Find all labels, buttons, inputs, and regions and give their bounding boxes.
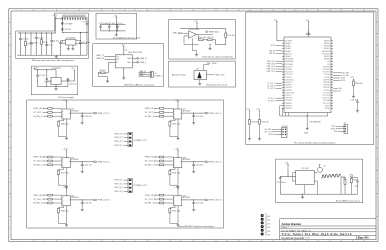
svg-text:R27 10k: R27 10k <box>61 172 68 174</box>
svg-text:11: 11 <box>249 240 251 242</box>
svg-text:ST_OUT_1: ST_OUT_1 <box>267 83 275 85</box>
svg-text:AD22100 Temp: AD22100 Temp <box>172 74 187 77</box>
block 2 cap ground symbol <box>81 170 84 173</box>
svg-text:R9 4k7: R9 4k7 <box>100 70 107 72</box>
R30 wires <box>353 81 355 96</box>
svg-text:PIC18F4580: PIC18F4580 <box>310 121 322 123</box>
svg-text:RB0/INT0: RB0/INT0 <box>324 59 331 61</box>
block 5 input wire row 2 <box>154 160 173 162</box>
block 2 pull-down wire <box>58 168 66 186</box>
power out connector P3 labels <box>114 180 123 193</box>
svg-text:14: 14 <box>317 10 319 12</box>
serial connector J3 body <box>344 125 348 134</box>
J3 wire labels <box>331 126 339 133</box>
block 4 series resistor row 3 <box>159 115 163 117</box>
svg-text:BTS426: BTS426 <box>71 110 79 112</box>
LED D2 <box>261 218 264 221</box>
block 4 vcc wire <box>177 103 179 109</box>
svg-text:CAN_H: CAN_H <box>140 57 147 60</box>
CANH output wire <box>132 57 137 59</box>
ISP connector J4 body <box>282 128 288 138</box>
TMP_OUT wire box E <box>206 74 214 76</box>
R9 ground wire <box>98 73 107 80</box>
ground bus stub down <box>302 194 304 196</box>
svg-text:10: 10 <box>226 10 228 12</box>
power out connector P2 body <box>128 132 132 146</box>
junction dots on buses <box>109 24 119 31</box>
svg-text:D3: D3 <box>265 222 267 224</box>
svg-text:D6: D6 <box>265 233 267 235</box>
svg-text:C44 10n: C44 10n <box>196 165 204 167</box>
block 3 input wire row 3 <box>43 202 62 204</box>
box G outline <box>31 66 77 95</box>
svg-text:J: J <box>376 228 377 230</box>
block 5 output wire <box>182 161 206 163</box>
svg-text:CONN_3: CONN_3 <box>154 75 163 77</box>
U3 left pin stubs <box>282 41 284 109</box>
U7 ground stub <box>304 185 306 195</box>
svg-text:5: 5 <box>112 10 113 12</box>
block 2 input wire row 3 <box>43 164 62 166</box>
block 6 input wire row 3 <box>154 202 173 204</box>
svg-text:1: 1 <box>21 10 22 12</box>
svg-text:BTS426: BTS426 <box>71 197 79 199</box>
block 4 output wire <box>182 112 206 114</box>
U5 left pin wires <box>63 41 66 44</box>
block 4 output hierarchical arrow <box>206 112 209 114</box>
CANL output wire <box>132 61 137 63</box>
svg-text:4: 4 <box>89 10 90 12</box>
svg-text:RC3/SCK/SCL: RC3/SCK/SCL <box>285 79 295 81</box>
svg-text:PWR_OUT_3: PWR_OUT_3 <box>114 187 123 189</box>
block 2 output junction dot <box>82 161 83 162</box>
J3 wires <box>336 126 344 131</box>
U3 ground wire <box>306 113 308 127</box>
svg-text:C27 100n: C27 100n <box>277 182 286 184</box>
feedback resistor R10 <box>199 39 204 41</box>
svg-text:C4 10n: C4 10n <box>37 38 43 40</box>
svg-text:16: 16 <box>363 240 365 242</box>
output wire <box>61 72 74 81</box>
block 5 series resistor row 1 <box>159 156 163 158</box>
block 5 input wire row 3 <box>154 164 173 166</box>
PROFET block 2: +12V power flag <box>66 150 68 152</box>
block 3 output hierarchical arrow <box>94 199 97 201</box>
svg-text:13: 13 <box>294 240 296 242</box>
vcc wire U3 top right <box>307 23 309 37</box>
sensor ground wire <box>199 80 201 83</box>
U3 left net wires <box>276 46 283 101</box>
block 5 output hierarchical arrow <box>206 161 209 163</box>
svg-text:6: 6 <box>135 240 136 242</box>
regulator U5 body <box>66 39 76 45</box>
PROFET block 6: +12V power flag <box>177 188 179 190</box>
svg-text:ST_OUT_1: ST_OUT_1 <box>33 112 44 114</box>
block 3 series resistor row 1 <box>48 194 52 196</box>
svg-text:5_LED3: 5_LED3 <box>265 223 271 225</box>
LED D1 <box>261 214 264 217</box>
filter capacitor C5 <box>45 33 48 56</box>
filter capacitor C6 <box>50 33 53 56</box>
ground symbol below U5 <box>67 47 70 50</box>
svg-text:RB5/PGM: RB5/PGM <box>324 46 331 48</box>
high-side switch U10 body <box>173 158 181 168</box>
block 4 series resistor row 2 <box>159 111 163 113</box>
svg-text:PWR_OUT_2: PWR_OUT_2 <box>114 137 123 139</box>
svg-text:8: 8 <box>180 240 181 242</box>
regulator U2 body <box>51 77 61 84</box>
box E outline <box>169 61 236 87</box>
svg-text:D4: D4 <box>265 225 267 227</box>
svg-text:TMP_PWR: TMP_PWR <box>207 63 218 65</box>
+5V power flag box H <box>287 164 289 166</box>
BOX D: temperature sense signal conditioning block <box>169 20 236 59</box>
svg-text:RD6/PSP6: RD6/PSP6 <box>285 108 292 110</box>
svg-text:ST_OUT_6: ST_OUT_6 <box>145 199 156 201</box>
svg-text:Temp detection circuit: Temp detection circuit <box>206 84 228 87</box>
svg-text:C43 10n: C43 10n <box>196 116 204 118</box>
block 2 output hierarchical arrow <box>94 161 97 163</box>
block 3 output junction dot <box>82 199 83 200</box>
svg-text:+12V: +12V <box>63 149 68 151</box>
U5 ground stubs <box>68 45 73 47</box>
svg-text:RC2/CCP1: RC2/CCP1 <box>323 92 330 94</box>
svg-text:RC6/TX/CK: RC6/TX/CK <box>285 98 293 100</box>
decoupling cap bank C10-C19 <box>62 17 87 20</box>
output cap C45 <box>192 200 195 208</box>
U3 right pin stubs <box>331 41 333 109</box>
svg-text:R30 10k: R30 10k <box>173 172 180 174</box>
power out connector P3 body <box>128 179 132 193</box>
svg-text:12: 12 <box>272 240 274 242</box>
LED D4 <box>261 225 264 228</box>
block 6 output hierarchical arrow <box>206 199 209 201</box>
svg-text:5: 5 <box>112 240 113 242</box>
filter capacitor C4 <box>35 33 38 56</box>
wire bottom bus <box>101 30 126 32</box>
block 4 input wire row 1 <box>154 107 173 109</box>
svg-text:IN_SEL_1: IN_SEL_1 <box>268 98 275 100</box>
op-amp input wires <box>184 33 189 36</box>
svg-text:RC0/T1OSO: RC0/T1OSO <box>285 72 294 74</box>
block 2 input wire row 2 <box>43 160 62 162</box>
svg-text:MCLR/VPP: MCLR/VPP <box>285 40 292 42</box>
svg-text:15: 15 <box>340 10 342 12</box>
svg-text:ISP_CLK: ISP_CLK <box>265 131 271 133</box>
svg-text:RD0/PSP0: RD0/PSP0 <box>285 82 292 84</box>
svg-text:+12V: +12V <box>63 187 68 189</box>
svg-text:CAN_TX: CAN_TX <box>96 54 105 57</box>
+12V power flag P1 <box>55 17 57 19</box>
resistor R16 <box>259 120 261 125</box>
BOX A: reverse power input and series filter block <box>16 13 90 62</box>
svg-text:RD7/PSP7: RD7/PSP7 <box>323 66 330 68</box>
svg-text:MCP2551 CAN bus transceiver: MCP2551 CAN bus transceiver <box>124 84 155 87</box>
PROFET block 1: +12V power flag <box>66 101 68 103</box>
svg-text:RC7/RX/DT: RC7/RX/DT <box>285 100 293 102</box>
gain resistor R11 <box>203 39 215 41</box>
svg-text:RC5/SDO: RC5/SDO <box>285 95 292 97</box>
block 6 input wire row 1 <box>154 194 173 196</box>
svg-text:RC5/SDO: RC5/SDO <box>324 74 331 76</box>
block 2 series resistor row 3 <box>48 164 52 166</box>
svg-text:PWR_OUT_1: PWR_OUT_1 <box>114 180 123 182</box>
svg-text:2: 2 <box>44 10 45 12</box>
ground symbol R9 <box>106 80 109 83</box>
block 4 input wire row 3 <box>154 115 173 117</box>
svg-text:RX232: RX232 <box>331 128 336 130</box>
svg-text:PWR_OUT_2: PWR_OUT_2 <box>114 183 123 185</box>
block 1 series resistor row 3 <box>48 115 52 117</box>
sensor U9 body <box>194 70 206 79</box>
input cap C1 <box>36 69 39 86</box>
block 1 output junction dot <box>82 113 83 114</box>
svg-text:5_LED5: 5_LED5 <box>265 231 271 233</box>
svg-text:RB7/PGD: RB7/PGD <box>324 40 330 42</box>
decoupling cap bank bus <box>63 16 86 18</box>
svg-text:7: 7 <box>158 10 159 12</box>
svg-text:PIC microcontroller and assort: PIC microcontroller and assorted hardwar… <box>294 142 336 145</box>
block 1 output hierarchical arrow <box>94 112 97 114</box>
svg-text:1: 1 <box>21 240 22 242</box>
svg-text:PWR_ON_3: PWR_ON_3 <box>267 66 275 68</box>
PROFET block 4: +12V power flag <box>177 101 179 103</box>
svg-text:ST_OUT_3: ST_OUT_3 <box>33 199 44 201</box>
svg-text:C40 10n: C40 10n <box>84 116 92 118</box>
crystal Y1 wire <box>314 172 317 174</box>
R30 resistor <box>353 81 355 86</box>
U7 internal pin marks <box>62 160 70 166</box>
BOX C: CAN bus transceiver block <box>93 44 164 87</box>
BOX E: temperature sensor block <box>169 61 236 87</box>
BOX F: smart PROFET switches block <box>27 100 224 228</box>
TMP_OUT wire <box>178 32 184 34</box>
ground symbol R30 <box>352 95 355 98</box>
svg-text:15: 15 <box>340 240 342 242</box>
TMP_PWR wire <box>204 65 210 71</box>
ground symbol box E <box>198 82 201 85</box>
svg-text:3: 3 <box>66 10 67 12</box>
svg-text:RX232: RX232 <box>341 80 346 82</box>
R15 wire lower <box>249 124 251 137</box>
svg-text:RC2/CCP1: RC2/CCP1 <box>285 77 292 79</box>
block 1 input wire row 3 <box>43 115 62 117</box>
TEMP hierarchical label <box>206 31 208 33</box>
svg-text:PWR_OUT_4: PWR_OUT_4 <box>209 113 222 115</box>
svg-text:PWR_OUT_4: PWR_OUT_4 <box>114 191 123 193</box>
svg-text:IN_SEL_2: IN_SEL_2 <box>268 100 275 102</box>
output cap C42 <box>81 200 84 208</box>
U3 left net labels <box>267 45 276 102</box>
block 5 series resistor row 3 <box>159 164 163 166</box>
svg-text:6: 6 <box>135 10 136 12</box>
svg-text:4: 4 <box>89 240 90 242</box>
svg-text:TEMP_ADC: TEMP_ADC <box>209 30 220 33</box>
svg-text:10: 10 <box>226 240 228 242</box>
ground symbol box D bottom <box>195 54 198 57</box>
svg-text:RD1/PSP1: RD1/PSP1 <box>323 85 330 87</box>
divider resistor R12 <box>216 29 227 45</box>
output cap C30 <box>67 79 70 87</box>
block 3 pull-down wire <box>58 206 66 224</box>
block 6 output junction dot <box>193 199 194 200</box>
svg-text:5_LED6: 5_LED6 <box>265 235 271 237</box>
block 3 series resistor row 3 <box>48 202 52 204</box>
svg-text:R26 10k: R26 10k <box>61 124 68 126</box>
R16 wire lower <box>259 124 261 137</box>
svg-text:ST_OUT_5: ST_OUT_5 <box>145 161 156 163</box>
svg-text:PWR_OUT_3: PWR_OUT_3 <box>114 141 123 143</box>
svg-text:C5 1u: C5 1u <box>48 45 53 47</box>
svg-text:R15 10k: R15 10k <box>251 122 258 124</box>
svg-text:D5: D5 <box>265 229 267 231</box>
svg-text:R28 10k: R28 10k <box>61 210 68 212</box>
R30 power flag <box>353 79 354 81</box>
LED D6 <box>261 233 264 236</box>
LED D3 label <box>265 222 271 226</box>
filter resistor R3 <box>40 33 42 56</box>
ground bus box G <box>38 86 68 88</box>
wire center vertical <box>115 19 117 31</box>
svg-text:R12 4k7: R12 4k7 <box>227 35 235 37</box>
PROFET block 3: +12V power flag <box>66 188 68 190</box>
svg-text:PWR_OUT_3: PWR_OUT_3 <box>98 200 111 202</box>
slope resistor R9 <box>98 72 105 74</box>
output cap C40 <box>81 113 84 121</box>
U10 internal pin marks <box>173 160 181 166</box>
pull-down resistor block 5 <box>169 170 171 175</box>
svg-text:C45 10n: C45 10n <box>196 203 204 205</box>
svg-text:U7 OSC: U7 OSC <box>302 168 310 170</box>
block 4 pull-down wire <box>170 119 178 137</box>
svg-text:C26 10n: C26 10n <box>350 99 358 101</box>
svg-text:RE2/CS: RE2/CS <box>325 105 330 107</box>
svg-text:R29 10k: R29 10k <box>173 124 180 126</box>
U3 bottom programming wires <box>280 106 328 116</box>
block 1 output wire <box>70 112 94 114</box>
CAN_TX wire <box>105 56 116 58</box>
ground symbol R16 <box>258 138 261 141</box>
svg-text:RD0/PSP0: RD0/PSP0 <box>323 87 330 89</box>
resistor R15 <box>249 120 251 125</box>
pull-down resistor block 1 <box>57 122 59 127</box>
U4 ground wire <box>123 68 125 77</box>
svg-text:PWR_ON_4: PWR_ON_4 <box>267 69 275 71</box>
feedback wire left <box>184 36 199 45</box>
LED D2 label <box>265 218 271 222</box>
scribble tail wire <box>340 177 342 195</box>
right edge cap C7 <box>86 17 89 33</box>
svg-text:+12V: +12V <box>174 100 179 102</box>
block 5 pull-down wire <box>170 168 178 186</box>
ground wire box D <box>209 45 211 47</box>
svg-text:C30 10u: C30 10u <box>69 84 77 86</box>
svg-text:VDD: VDD <box>327 61 330 63</box>
bypass cap C25 at U3 top <box>306 31 311 34</box>
CAN_RX wire <box>105 58 116 60</box>
svg-text:IN_SEL_1: IN_SEL_1 <box>33 116 43 118</box>
high-side switch U9 body <box>173 109 181 119</box>
title block outline <box>280 219 376 240</box>
svg-text:13: 13 <box>294 10 296 12</box>
block 2 input wire row 1 <box>43 156 62 158</box>
connector J2 body <box>150 71 153 77</box>
block 1 pull-down wire <box>58 119 66 137</box>
block 6 series resistor row 2 <box>159 198 163 200</box>
R15 wire upper <box>249 112 251 119</box>
op-amp output wire <box>197 35 206 40</box>
ground symbol box G <box>55 88 58 91</box>
block 1 input wire row 2 <box>43 111 62 113</box>
filter capacitor C3 <box>30 33 33 56</box>
ground symbol C26 <box>356 110 359 113</box>
svg-text:R31 10k: R31 10k <box>173 210 180 212</box>
op-amp U8 triangle <box>189 31 197 38</box>
block 4 series resistor row 1 <box>159 107 163 109</box>
block 5 input wire row 1 <box>154 156 173 158</box>
wire top bus <box>101 24 126 26</box>
box D outline <box>169 20 236 59</box>
svg-text:PWR_OUT_1: PWR_OUT_1 <box>114 133 123 135</box>
protection diode D7 <box>61 22 63 26</box>
block 6 input wire row 2 <box>154 198 173 200</box>
svg-text:RD5/PSP5: RD5/PSP5 <box>285 105 292 107</box>
svg-text:RC1/T1OSI: RC1/T1OSI <box>323 95 331 97</box>
svg-text:PWR_OUT_1: PWR_OUT_1 <box>98 113 111 115</box>
svg-text:C7 4u7: C7 4u7 <box>82 22 89 24</box>
svg-text:IN_SEL_5: IN_SEL_5 <box>145 165 155 167</box>
svg-text:POWER_OUT: POWER_OUT <box>134 140 148 142</box>
block 5 cap ground symbol <box>192 170 195 173</box>
U2 ground stub <box>55 85 57 87</box>
+5V power flag box D <box>196 23 198 25</box>
BOX I: PIC microcontroller block <box>246 12 374 145</box>
svg-text:RD3/PSP3: RD3/PSP3 <box>285 90 292 92</box>
trimmer T1 circle <box>350 175 353 178</box>
block 6 vcc wire <box>177 190 179 196</box>
svg-text:ST_OUT_3: ST_OUT_3 <box>267 88 275 90</box>
U11 internal pin marks <box>173 198 181 204</box>
ground symbol below U5 pin2 <box>71 47 74 50</box>
cap C26 chain <box>356 99 359 110</box>
T1 wires <box>350 177 352 194</box>
connector J2 wires <box>139 73 151 77</box>
svg-text:C21 10u: C21 10u <box>107 23 115 25</box>
svg-text:C42 10n: C42 10n <box>84 203 92 205</box>
block 3 cap ground symbol <box>81 208 84 211</box>
svg-text:RE1/WR: RE1/WR <box>325 108 331 110</box>
svg-text:OSC1/CLKI: OSC1/CLKI <box>285 66 293 68</box>
+5V power flag right of U3 top <box>308 21 310 23</box>
crystal Y1 circle <box>318 167 323 172</box>
svg-text:C6 10n: C6 10n <box>53 40 59 42</box>
R31 wires <box>341 177 345 194</box>
power out connector P3 wires <box>124 180 128 191</box>
svg-text:PWR_OUT_2: PWR_OUT_2 <box>98 162 111 164</box>
R15 power flag <box>249 111 250 113</box>
block 3 input wire row 2 <box>43 198 62 200</box>
U3 left pin number texts <box>282 40 284 110</box>
svg-text:5_LED1: 5_LED1 <box>265 216 271 218</box>
svg-text:POWER_OUT: POWER_OUT <box>134 185 148 187</box>
block 6 series resistor row 1 <box>159 194 163 196</box>
U2 left pin wire <box>47 80 51 82</box>
svg-text:+12V: +12V <box>63 100 68 102</box>
svg-text:IN_SEL_3: IN_SEL_3 <box>33 203 43 205</box>
svg-text:IN_SEL_6: IN_SEL_6 <box>145 203 155 205</box>
+5V power flag <box>116 17 118 19</box>
box I outline <box>246 12 374 145</box>
